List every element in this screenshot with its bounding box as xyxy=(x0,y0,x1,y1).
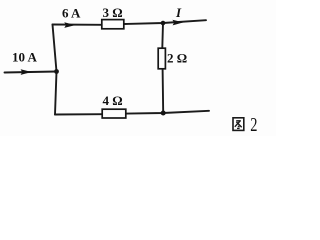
svg-text:4 Ω: 4 Ω xyxy=(103,93,123,108)
svg-text:6 A: 6 A xyxy=(62,5,81,20)
svg-text:2: 2 xyxy=(250,113,257,136)
svg-text:10 A: 10 A xyxy=(12,49,38,64)
svg-text:3 Ω: 3 Ω xyxy=(103,5,123,20)
svg-text:I: I xyxy=(175,5,182,20)
svg-text:2 Ω: 2 Ω xyxy=(167,50,187,65)
